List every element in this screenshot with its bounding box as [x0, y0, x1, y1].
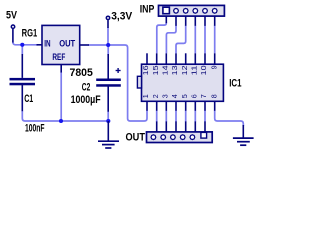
svg-text:7805: 7805 [70, 67, 93, 79]
svg-text:100nF: 100nF [25, 122, 45, 134]
svg-text:C1: C1 [24, 93, 33, 105]
svg-text:REF: REF [52, 52, 65, 62]
svg-text:RG1: RG1 [22, 27, 38, 39]
svg-text:1: 1 [141, 94, 150, 98]
svg-text:2: 2 [151, 94, 160, 98]
svg-text:7: 7 [199, 94, 208, 98]
svg-text:9: 9 [210, 65, 219, 69]
svg-text:16: 16 [141, 65, 150, 75]
svg-text:6: 6 [190, 94, 199, 98]
svg-text:C2: C2 [82, 82, 91, 94]
svg-text:IC1: IC1 [229, 77, 241, 89]
svg-text:3: 3 [161, 94, 170, 98]
svg-text:5: 5 [180, 94, 189, 98]
svg-text:INP: INP [140, 4, 155, 16]
svg-text:8: 8 [210, 94, 219, 98]
svg-text:5V: 5V [6, 10, 18, 22]
svg-text:1000µF: 1000µF [71, 94, 101, 106]
svg-text:4: 4 [170, 94, 179, 98]
svg-text:3,3V: 3,3V [111, 10, 133, 22]
svg-text:14: 14 [161, 65, 170, 75]
svg-text:IN: IN [44, 38, 50, 48]
svg-text:10: 10 [199, 65, 208, 75]
svg-text:13: 13 [170, 65, 179, 75]
svg-text:OUT: OUT [126, 131, 146, 143]
svg-text:12: 12 [180, 65, 189, 75]
svg-text:OUT: OUT [59, 38, 75, 48]
svg-text:15: 15 [151, 65, 160, 75]
svg-text:11: 11 [190, 65, 199, 75]
